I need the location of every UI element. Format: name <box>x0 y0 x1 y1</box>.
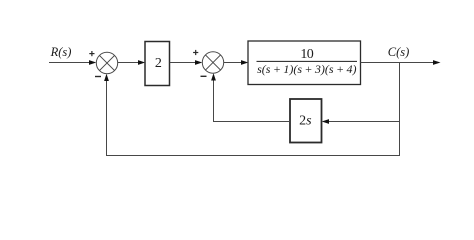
block G1 gain 2 <box>145 42 170 86</box>
plus sign at S2 <box>193 50 198 55</box>
minus sign at S1 <box>95 76 101 78</box>
wire H1 to inner feedback left segment <box>213 121 290 123</box>
svg-text:R(s): R(s) <box>50 45 72 59</box>
wire input line into summing junction S1 <box>49 60 96 65</box>
minus sign at S2 <box>201 75 207 77</box>
svg-text:2: 2 <box>155 56 162 71</box>
summing junction S1 <box>96 52 117 73</box>
wire inner feedback right segment into H1 <box>322 119 400 124</box>
wire S1 to block G1 <box>118 60 146 65</box>
wire G2 to output C(s) <box>361 60 441 65</box>
wire branch vertical from output node <box>399 62 401 156</box>
svg-text:C(s): C(s) <box>388 45 410 59</box>
wire outer feedback vertical into S1 <box>104 74 109 156</box>
block G2 plant 10/s(s+1)(s+3)(s+4) <box>248 41 361 85</box>
block H1 feedback 2s <box>290 99 322 143</box>
svg-text:s(s + 1)(s + 3)(s + 4): s(s + 1)(s + 3)(s + 4) <box>257 62 356 76</box>
svg-text:10: 10 <box>300 47 313 62</box>
summing junction S2 <box>202 52 223 73</box>
svg-text:2s: 2s <box>299 114 312 129</box>
wire outer feedback bottom segment <box>106 155 400 157</box>
plus sign at S1 <box>89 51 94 56</box>
wire G1 to summing junction S2 <box>170 60 203 65</box>
wire S2 to block G2 <box>224 60 249 65</box>
wire inner feedback vertical into S2 <box>211 73 216 122</box>
